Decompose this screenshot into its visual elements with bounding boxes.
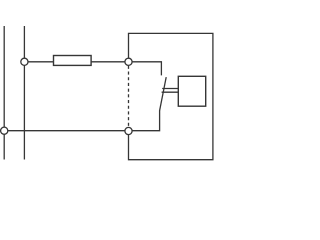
dashed linkage line between node B and node D: [128, 66, 130, 127]
actuator linkage (double line to coil box): [162, 88, 178, 90]
enclosure box (relay housing outline): [129, 33, 213, 159]
wire: node B to switch fixed contact: [129, 62, 162, 76]
node D (junction circle at enclosure left, lower): [125, 127, 132, 134]
wire: supply bus line 2 (second vertical): [23, 26, 25, 160]
node A (junction circle on bus 2): [21, 58, 28, 65]
wire: resistor to enclosure node B: [91, 61, 128, 63]
wire: supply bus line 1 (left vertical): [3, 26, 5, 160]
node C (junction circle on bus 1): [1, 127, 8, 134]
wire: upper horizontal from node A to resistor: [24, 61, 53, 63]
wire: switch lower contact to node D: [129, 110, 160, 130]
switch blade S: [160, 77, 167, 111]
actuator coil box: [178, 76, 205, 106]
node B (junction circle at enclosure left, upper): [125, 58, 132, 65]
resistor: [54, 56, 92, 66]
wire: lower horizontal from node C to node D: [4, 130, 128, 132]
